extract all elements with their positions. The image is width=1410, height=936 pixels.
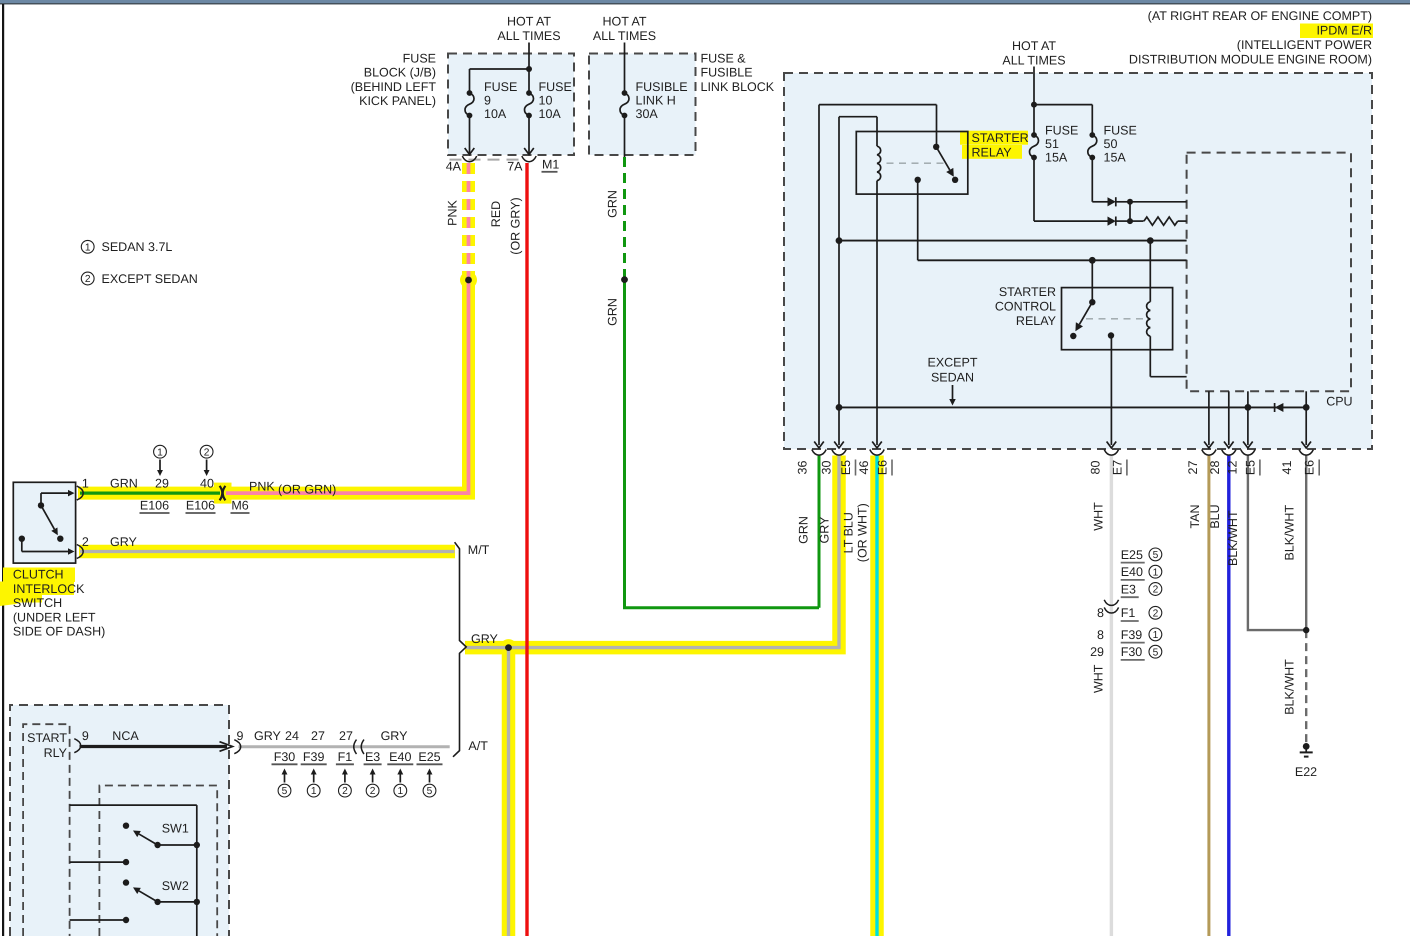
- fusible link output: [624, 116, 626, 158]
- svg-text:PNK: PNK: [249, 479, 275, 493]
- svg-text:15A: 15A: [1104, 150, 1127, 164]
- svg-text:E6: E6: [876, 460, 890, 475]
- svg-text:SIDE OF DASH): SIDE OF DASH): [13, 625, 105, 639]
- fuse 10 output: [528, 116, 530, 155]
- wire to control relay switch: [1091, 260, 1093, 302]
- svg-text:51: 51: [1045, 137, 1059, 151]
- junction dot fuse block: [526, 66, 532, 72]
- svg-text:F39: F39: [1121, 628, 1143, 642]
- highlight GRY wire M/T: [79, 545, 455, 559]
- svg-text:EXCEPT: EXCEPT: [927, 355, 977, 369]
- wire TAN pin 27: [1207, 456, 1210, 936]
- pin 41 arrow and cup: [1301, 442, 1311, 449]
- svg-text:29: 29: [155, 477, 169, 491]
- svg-text:2: 2: [370, 786, 376, 797]
- page left border: [2, 4, 4, 936]
- SW2: [123, 879, 129, 885]
- resistor R1: [1130, 220, 1144, 222]
- clutch interlock switch box: [13, 482, 75, 563]
- wire BLK/WHT pin 12: [1248, 456, 1306, 631]
- svg-text:1: 1: [311, 786, 317, 797]
- wire pin36 top link: [819, 104, 937, 106]
- svg-text:12: 12: [1225, 461, 1239, 475]
- feed line 3: [70, 919, 126, 921]
- svg-text:HOT AT: HOT AT: [603, 15, 647, 29]
- junction dot BLK/WHT: [1303, 627, 1309, 633]
- starter relay dashed link: [887, 162, 944, 164]
- svg-text:START: START: [27, 731, 67, 745]
- clutch switch arm: [41, 505, 54, 529]
- svg-text:15A: 15A: [1045, 150, 1068, 164]
- feed line 2: [70, 861, 126, 863]
- svg-text:28: 28: [1208, 461, 1222, 475]
- svg-text:24: 24: [285, 729, 299, 743]
- svg-text:30: 30: [820, 461, 834, 475]
- wire LT BLU pin 46: [875, 456, 878, 936]
- fuse 50: [1089, 132, 1095, 138]
- svg-text:INTERLOCK: INTERLOCK: [13, 582, 85, 596]
- svg-text:(OR GRY): (OR GRY): [509, 197, 523, 254]
- wire pin30 top link: [839, 116, 877, 118]
- legend except sedan: [81, 272, 94, 285]
- wire GRY clutch M/T: [80, 550, 455, 553]
- control relay dashed link: [1086, 318, 1144, 320]
- svg-text:E3: E3: [1121, 582, 1136, 596]
- starter relay box: [856, 132, 968, 195]
- wire hot feed 2: [624, 43, 626, 94]
- highlight M6 connector: [214, 483, 232, 504]
- svg-text:IPDM E/R: IPDM E/R: [1316, 24, 1372, 38]
- highlight PNK wire path: [226, 276, 469, 493]
- ignition switch inner box: [99, 786, 217, 936]
- wire to fuse 51: [1033, 105, 1035, 135]
- svg-text:BLK/WHT: BLK/WHT: [1226, 510, 1240, 566]
- wire PNK dashed from fuse 9: [467, 163, 471, 276]
- svg-text:GRY: GRY: [254, 729, 282, 743]
- svg-text:E106: E106: [140, 499, 169, 513]
- svg-text:GRY: GRY: [818, 516, 832, 544]
- diode D3 pointing left: [1275, 403, 1284, 412]
- junction dot line B: [1089, 257, 1096, 264]
- legend sedan 3.7L: [81, 240, 94, 253]
- fuse 10: [526, 90, 532, 96]
- svg-text:(UNDER LEFT: (UNDER LEFT: [13, 610, 96, 624]
- junction dot line A coil: [1147, 237, 1154, 244]
- svg-text:WHT: WHT: [1092, 664, 1106, 693]
- connector M6 arcs: [220, 486, 223, 500]
- svg-text:SW1: SW1: [162, 821, 189, 835]
- fuse 9 output: [469, 116, 471, 155]
- svg-text:M6: M6: [231, 499, 248, 513]
- wire RED from fuse 10: [525, 163, 528, 936]
- svg-text:1: 1: [157, 447, 163, 458]
- svg-text:BLK/WHT: BLK/WHT: [1283, 659, 1297, 715]
- svg-text:F1: F1: [1121, 606, 1136, 620]
- control relay output contact: [1108, 332, 1114, 338]
- svg-text:4A: 4A: [446, 160, 462, 174]
- svg-text:NCA: NCA: [112, 729, 139, 743]
- svg-text:46: 46: [857, 461, 871, 475]
- wire GRN solid to pin 36: [625, 277, 820, 608]
- wire hot feed 1: [528, 43, 530, 70]
- svg-text:SEDAN 3.7L: SEDAN 3.7L: [102, 240, 173, 254]
- svg-text:5: 5: [1153, 550, 1159, 561]
- svg-text:2: 2: [82, 535, 89, 549]
- start rly pin 9 cup: [74, 739, 80, 753]
- svg-text:RELAY: RELAY: [972, 145, 1013, 159]
- svg-text:41: 41: [1280, 461, 1294, 475]
- wire GRY A/T: [239, 745, 450, 748]
- svg-text:2: 2: [1153, 608, 1159, 619]
- wire BLU pin 28: [1227, 456, 1230, 936]
- svg-text:FUSE: FUSE: [1104, 123, 1137, 137]
- svg-text:1: 1: [1153, 630, 1159, 641]
- svg-text:E6: E6: [1303, 460, 1317, 475]
- bus vertical: [196, 805, 198, 936]
- svg-text:5: 5: [1153, 647, 1159, 658]
- svg-text:DISTRIBUTION MODULE ENGINE ROO: DISTRIBUTION MODULE ENGINE ROOM): [1129, 52, 1372, 66]
- junction dot PNK: [465, 277, 472, 284]
- svg-text:36: 36: [796, 461, 810, 475]
- svg-text:40: 40: [200, 477, 214, 491]
- wire coil to pin 46: [876, 194, 878, 445]
- wire PNK solid: [226, 276, 469, 493]
- svg-text:27: 27: [1186, 461, 1200, 475]
- svg-text:27: 27: [339, 729, 353, 743]
- svg-text:FUSE: FUSE: [484, 80, 517, 94]
- variant circle 1 with arrow: [154, 445, 167, 458]
- svg-text:27: 27: [311, 729, 325, 743]
- clutch switch pin1 internal: [38, 502, 44, 508]
- wire BLK/WHT dashed to ground: [1305, 630, 1307, 744]
- junction dot IPDM feed: [1031, 102, 1037, 108]
- svg-text:E7: E7: [1110, 460, 1124, 475]
- svg-text:2: 2: [204, 447, 210, 458]
- svg-text:LINK H: LINK H: [636, 94, 676, 108]
- pin 12 arrow and cup: [1243, 442, 1253, 449]
- pin 30 arrow and cup: [834, 442, 844, 449]
- svg-text:(OR GRN): (OR GRN): [278, 482, 336, 496]
- junction dot D2: [1127, 218, 1133, 224]
- junction dot GRN: [621, 276, 628, 283]
- svg-text:E22: E22: [1295, 765, 1317, 779]
- svg-text:BLOCK (J/B): BLOCK (J/B): [364, 66, 436, 80]
- svg-text:10A: 10A: [484, 107, 507, 121]
- wire except sedan line: [836, 404, 843, 411]
- svg-text:2: 2: [342, 786, 348, 797]
- fuse and fusible link block box: [589, 54, 696, 156]
- svg-text:8: 8: [1097, 628, 1104, 642]
- highlight PNK wire dashed segment: [462, 163, 475, 276]
- wire line A control coil feed: [836, 237, 843, 244]
- svg-text:GRY: GRY: [110, 535, 138, 549]
- svg-text:ALL TIMES: ALL TIMES: [593, 29, 656, 43]
- highlight PNK junction halo: [460, 272, 477, 289]
- pin 36 arrow and cup: [814, 442, 824, 449]
- svg-text:SWITCH: SWITCH: [13, 596, 62, 610]
- svg-text:RED: RED: [489, 201, 503, 227]
- svg-text:RLY: RLY: [44, 746, 68, 760]
- svg-text:1: 1: [82, 477, 89, 491]
- svg-text:E40: E40: [1121, 565, 1143, 579]
- svg-text:HOT AT: HOT AT: [507, 15, 551, 29]
- svg-text:1: 1: [397, 786, 403, 797]
- starter relay common contact: [915, 177, 921, 183]
- wire GRN dashed from fusible link: [623, 157, 626, 277]
- wire line B relay to cpu: [918, 259, 1187, 261]
- pin 27 arrow and cup: [1204, 442, 1214, 449]
- svg-text:STARTER: STARTER: [972, 131, 1029, 145]
- svg-text:GRN: GRN: [110, 477, 138, 491]
- svg-text:1: 1: [85, 242, 91, 253]
- svg-text:BLU: BLU: [1208, 504, 1222, 528]
- wire BLK/WHT pin 41: [1305, 456, 1307, 631]
- junction dot GRY highlighted: [505, 644, 512, 651]
- wire fuse 51 to diode: [1033, 158, 1035, 222]
- highlight LT BLU wire: [870, 456, 884, 936]
- NCA end cup: [234, 740, 240, 754]
- clutch switch pin2 internal: [19, 536, 25, 542]
- svg-text:FUSE: FUSE: [403, 51, 436, 65]
- ground E22: [1303, 743, 1310, 750]
- fuse block J/B box: [448, 54, 574, 156]
- svg-text:2: 2: [1153, 585, 1159, 596]
- svg-text:E5: E5: [1243, 460, 1257, 475]
- connector on WHT wire: [1104, 600, 1118, 606]
- svg-text:CLUTCH: CLUTCH: [13, 568, 64, 582]
- svg-text:LINK BLOCK: LINK BLOCK: [701, 80, 775, 94]
- start relay assembly box: [10, 705, 229, 936]
- svg-text:E5: E5: [839, 460, 853, 475]
- svg-text:GRN: GRN: [606, 298, 620, 326]
- CPU box: [1187, 153, 1351, 392]
- svg-text:PNK: PNK: [446, 199, 460, 225]
- svg-text:(OR WHT): (OR WHT): [856, 503, 870, 562]
- svg-text:E3: E3: [365, 750, 380, 764]
- svg-text:(AT RIGHT REAR OF ENGINE COMPT: (AT RIGHT REAR OF ENGINE COMPT): [1148, 9, 1372, 23]
- svg-text:9: 9: [237, 729, 244, 743]
- fuse 51: [1031, 132, 1037, 138]
- feed line 1: [70, 804, 197, 806]
- wire cpu pin 28: [1228, 391, 1230, 445]
- svg-text:E25: E25: [418, 750, 440, 764]
- svg-text:RELAY: RELAY: [1016, 314, 1057, 328]
- highlight GRY wire path: [465, 456, 839, 648]
- fuse 9: [467, 90, 473, 96]
- starter relay coil: [876, 117, 878, 147]
- pin 28 arrow and cup: [1224, 442, 1234, 449]
- svg-text:80: 80: [1088, 461, 1102, 475]
- wire diode junction link: [1129, 202, 1131, 221]
- svg-text:2: 2: [85, 274, 91, 285]
- svg-text:FUSE: FUSE: [1045, 123, 1078, 137]
- junction dot D1: [1127, 199, 1133, 205]
- svg-text:ALL TIMES: ALL TIMES: [1002, 53, 1065, 67]
- svg-text:30A: 30A: [636, 107, 659, 121]
- highlight GRY junction halo: [500, 639, 517, 656]
- wire GRN pin 36 vertical: [818, 456, 821, 608]
- fusible link H: [622, 90, 628, 96]
- wire GRN clutch to M6: [80, 492, 220, 495]
- wire hot feed 3: [1033, 67, 1035, 105]
- svg-text:F1: F1: [338, 750, 353, 764]
- svg-text:5: 5: [427, 786, 433, 797]
- svg-text:7A: 7A: [507, 160, 523, 174]
- junction dot pin41 line: [1303, 404, 1310, 411]
- clutch pin 1 cup: [77, 486, 83, 500]
- svg-text:10: 10: [539, 94, 553, 108]
- pin 7A cup: [522, 156, 536, 162]
- bracket merge symbol: [453, 542, 466, 757]
- svg-text:FUSIBLE: FUSIBLE: [636, 80, 688, 94]
- svg-text:E40: E40: [389, 750, 411, 764]
- connector M1 strip: [450, 159, 524, 161]
- svg-text:9: 9: [484, 94, 491, 108]
- wire cpu pin 41: [1305, 391, 1307, 445]
- diode D2: [1108, 217, 1116, 226]
- svg-text:E25: E25: [1121, 548, 1143, 562]
- wire cpu pin 27: [1208, 391, 1210, 445]
- svg-text:EXCEPT SEDAN: EXCEPT SEDAN: [102, 272, 198, 286]
- wire fuse block jumper: [470, 68, 530, 70]
- svg-text:F39: F39: [303, 750, 325, 764]
- wire WHT pin 80: [1110, 456, 1113, 936]
- start relay inner box: [23, 724, 70, 936]
- svg-text:TAN: TAN: [1188, 504, 1202, 528]
- svg-text:GRY: GRY: [471, 632, 499, 646]
- wire fuse 50 jumper: [1034, 104, 1092, 106]
- svg-text:GRN: GRN: [797, 516, 811, 544]
- svg-text:1: 1: [1153, 567, 1159, 578]
- svg-text:STARTER: STARTER: [999, 285, 1056, 299]
- wire coil to cpu: [1150, 376, 1186, 378]
- clutch pin 2 cup: [77, 545, 83, 559]
- svg-text:E106: E106: [186, 499, 215, 513]
- svg-text:A/T: A/T: [468, 739, 488, 753]
- starter control relay box: [1062, 288, 1173, 350]
- svg-text:29: 29: [1090, 645, 1104, 659]
- IPDM E/R box: [784, 73, 1372, 449]
- svg-text:ALL TIMES: ALL TIMES: [497, 29, 560, 43]
- svg-text:GRY: GRY: [381, 729, 409, 743]
- svg-text:GRN: GRN: [606, 190, 620, 218]
- highlight GRN wire clutch: [78, 487, 222, 500]
- svg-text:5: 5: [282, 786, 288, 797]
- svg-text:SW2: SW2: [162, 879, 189, 893]
- svg-text:(BEHIND LEFT: (BEHIND LEFT: [351, 80, 437, 94]
- clutch switch name label: [3, 568, 75, 583]
- highlight GRY vertical wire: [502, 648, 516, 936]
- svg-text:BLK/WHT: BLK/WHT: [1283, 505, 1297, 561]
- wire NCA: [80, 745, 228, 748]
- svg-text:M1: M1: [542, 158, 559, 172]
- pin 80 arrow and cup: [1107, 442, 1117, 449]
- variant circle 2 with arrow: [200, 445, 213, 458]
- svg-text:(INTELLIGENT POWER: (INTELLIGENT POWER: [1237, 38, 1372, 52]
- diode D1: [1108, 197, 1116, 206]
- svg-text:F30: F30: [274, 750, 296, 764]
- svg-text:FUSIBLE: FUSIBLE: [701, 66, 753, 80]
- svg-text:HOT AT: HOT AT: [1012, 39, 1056, 53]
- svg-text:CONTROL: CONTROL: [995, 299, 1056, 313]
- pin 46 arrow and cup: [872, 442, 882, 449]
- pin 4A cup: [462, 156, 476, 162]
- control relay switch: [1089, 299, 1095, 305]
- wire cpu pin 12: [1247, 391, 1249, 445]
- svg-text:WHT: WHT: [1092, 502, 1106, 531]
- starter relay label highlight: [960, 131, 1028, 145]
- svg-text:F30: F30: [1121, 645, 1143, 659]
- svg-text:CPU: CPU: [1326, 395, 1352, 409]
- except sedan arrow: [952, 385, 954, 399]
- starter relay switch: [933, 144, 939, 150]
- svg-text:LT BLU: LT BLU: [842, 512, 856, 553]
- svg-text:8: 8: [1097, 606, 1104, 620]
- svg-text:50: 50: [1104, 137, 1118, 151]
- svg-text:10A: 10A: [539, 107, 562, 121]
- junction dot pin12 line: [1245, 404, 1252, 411]
- window top bar: [0, 0, 1410, 3]
- svg-text:SEDAN: SEDAN: [931, 370, 974, 384]
- SW1: [123, 823, 129, 829]
- svg-text:KICK PANEL): KICK PANEL): [359, 94, 436, 108]
- svg-text:FUSE &: FUSE &: [701, 51, 747, 65]
- wire fuse 50 to diode: [1091, 158, 1093, 202]
- wire GRY vertical below junction: [507, 648, 510, 936]
- wire GRY pin 30 path: [466, 456, 839, 648]
- control relay coil: [1149, 241, 1151, 302]
- inline connector arcs A/T: [354, 740, 357, 754]
- svg-text:FUSE: FUSE: [539, 80, 572, 94]
- svg-text:M/T: M/T: [468, 543, 490, 557]
- svg-text:9: 9: [82, 729, 89, 743]
